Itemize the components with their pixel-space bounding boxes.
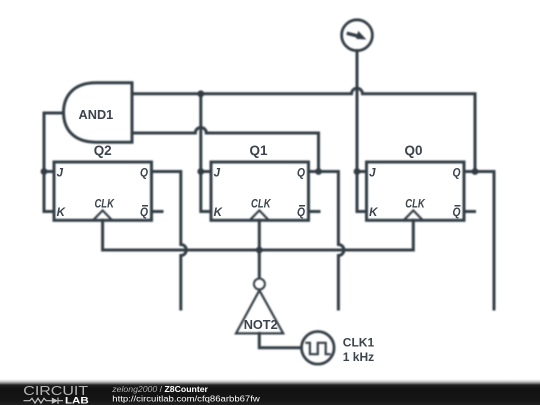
svg-text:AND1: AND1	[79, 107, 114, 122]
JK flip-flop Q0 (box, clock triangle, pin stubs)	[367, 162, 475, 220]
svg-text:Q1: Q1	[250, 142, 268, 158]
JK flip-flop Q2 (box, clock triangle, pin stubs)	[48, 162, 162, 220]
AND gate AND1 (mirrored, pointing left)	[64, 83, 133, 142]
junction dot on Q0.Q node	[472, 168, 479, 175]
pin label Qbar of Q0	[453, 205, 461, 219]
svg-text:K: K	[214, 207, 223, 219]
svg-text:CLK: CLK	[405, 198, 425, 210]
wire: Q1.Q output dropping down (hops over clock bus)	[309, 172, 344, 310]
junction dot at J of Q2	[41, 168, 48, 175]
svg-text:Q0: Q0	[405, 142, 423, 158]
svg-text:Q: Q	[453, 168, 461, 180]
wire: AND1 output to J/K of Q2	[44, 113, 64, 212]
svg-text:CLK: CLK	[251, 198, 271, 210]
junction dot on top net above Q1	[197, 90, 204, 97]
wire: net Q0.Q to AND1 top input (hops over probe wire)	[132, 88, 475, 171]
svg-text:1 kHz: 1 kHz	[343, 350, 374, 364]
wire: J/K tie of Q1 down to K pin	[201, 172, 211, 212]
JK flip-flop Q1 (box, clock triangle, pin stubs)	[211, 162, 319, 220]
inverter NOT2 (pointing up, bubble on output)	[236, 279, 283, 334]
svg-text:LAB: LAB	[65, 395, 89, 405]
wire: Q1 CLK drop to bus	[258, 220, 261, 250]
svg-text:J: J	[214, 167, 221, 179]
svg-text:J: J	[57, 167, 64, 179]
pin label Qbar of Q2	[140, 205, 148, 219]
junction dot at J of Q0	[354, 168, 361, 175]
svg-text:K: K	[57, 207, 66, 219]
wire: clock bus connecting CLK pins of Q2, Q1, Q0	[103, 220, 414, 250]
svg-text:K: K	[369, 207, 378, 219]
svg-text:Q: Q	[140, 168, 148, 180]
wire: probe P1 down to J pin node of Q0	[356, 51, 359, 172]
wire: J branch into Q1	[201, 170, 211, 173]
wire: Q0.Q output dropping down	[464, 172, 494, 310]
junction dot on clock bus at NOT2 output	[256, 247, 263, 254]
wire: Q2.Q output dropping down (hops over clock bus)	[152, 172, 187, 310]
footer logo resistor-diode glyph	[24, 398, 64, 404]
wire: NOT2 output up to clock bus	[258, 250, 261, 278]
junction dot at J of Q1	[197, 168, 204, 175]
wire: net Q1.Q to AND1 bottom input (hops over Q1 J/K drop)	[132, 128, 319, 172]
footer CircuitLab logo text	[23, 384, 88, 405]
svg-text:Q: Q	[297, 168, 305, 180]
wire: branch down to J/K of Q1	[199, 94, 202, 172]
svg-text:J: J	[369, 167, 376, 179]
wire: J/K tie of Q0 down to K pin	[357, 172, 367, 212]
junction dot on Q1.Q node	[315, 168, 322, 175]
svg-text:Q2: Q2	[94, 142, 112, 158]
wire: NOT2 input to CLK1	[259, 333, 301, 347]
svg-text:Q: Q	[297, 207, 305, 219]
probe P1 (meter circle with arrow glyph)	[342, 20, 373, 51]
svg-text:http://circuitlab.com/cfq86arb: http://circuitlab.com/cfq86arbb67fw	[112, 393, 260, 403]
footer bar	[0, 379, 540, 405]
svg-text:Q: Q	[140, 207, 148, 219]
clock source CLK1 (circle with square wave)	[302, 332, 335, 365]
svg-text:NOT2: NOT2	[244, 317, 278, 332]
wire: J branch into Q0	[357, 170, 367, 173]
svg-text:CLK: CLK	[94, 198, 114, 210]
svg-text:Q: Q	[453, 207, 461, 219]
pin label Qbar of Q1	[297, 205, 305, 219]
footer credit text	[111, 384, 260, 403]
wire: J branch into Q2	[44, 170, 54, 173]
svg-text:CLK1: CLK1	[343, 336, 375, 350]
